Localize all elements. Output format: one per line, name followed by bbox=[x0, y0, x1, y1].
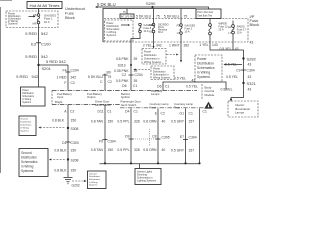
ground G202 bbox=[64, 178, 73, 184]
svg-text:157: 157 bbox=[189, 120, 195, 124]
stub to dimming box bbox=[139, 164, 141, 169]
connector C303 bbox=[66, 141, 71, 143]
svg-text:Power: Power bbox=[197, 57, 207, 61]
svg-text:Hot In Run And: Hot In Run And bbox=[197, 11, 213, 14]
w158 courtesy front bbox=[157, 109, 159, 164]
svg-text:S208: S208 bbox=[71, 159, 79, 163]
svg-text:0.8 PNK: 0.8 PNK bbox=[116, 57, 129, 61]
svg-text:D11: D11 bbox=[98, 109, 104, 113]
svg-text:Ground: Ground bbox=[21, 151, 32, 155]
svg-text:G1: G1 bbox=[179, 112, 184, 116]
svg-text:0.8 BLK: 0.8 BLK bbox=[54, 148, 67, 152]
svg-text:C1: C1 bbox=[203, 110, 207, 114]
svg-text:Systems: Systems bbox=[197, 75, 210, 79]
wire 1 YEL 143 (from WIPER fuse) bbox=[210, 35, 244, 50]
Body Control Module label bbox=[205, 86, 215, 97]
svg-text:0.5 YEL: 0.5 YEL bbox=[226, 75, 238, 79]
svg-text:Jamb Switch: Jamb Switch bbox=[121, 103, 137, 107]
fuse a GAUGES (x140) bbox=[139, 23, 155, 33]
wire 5 RED 542 from header bbox=[38, 9, 40, 66]
svg-text:5 RED: 5 RED bbox=[46, 59, 58, 64]
scan border top edge bbox=[0, 0, 12, 2]
svg-text:S201: S201 bbox=[42, 66, 52, 71]
svg-text:Distribution: Distribution bbox=[21, 156, 37, 160]
note box right: power distribution bbox=[195, 55, 222, 82]
svg-text:39: 39 bbox=[134, 57, 138, 61]
svg-text:C1: C1 bbox=[165, 84, 169, 88]
svg-text:43: 43 bbox=[250, 41, 254, 45]
svg-text:0.8 ORN: 0.8 ORN bbox=[143, 148, 157, 152]
svg-text:5 DK BLU: 5 DK BLU bbox=[164, 15, 180, 19]
svg-text:Rear: Rear bbox=[174, 106, 180, 110]
svg-text:Schematics: Schematics bbox=[89, 178, 101, 181]
ground dist note box G bbox=[88, 171, 107, 189]
ground dist note box2 bbox=[19, 116, 36, 136]
svg-text:in Wiring: in Wiring bbox=[22, 98, 32, 101]
svg-text:F: F bbox=[64, 81, 66, 85]
svg-text:342: 342 bbox=[71, 76, 77, 80]
svg-text:C2: C2 bbox=[122, 73, 126, 77]
svg-text:0.5 PPL: 0.5 PPL bbox=[117, 148, 129, 152]
svg-text:Front: Front bbox=[150, 106, 157, 110]
svg-text:C304: C304 bbox=[247, 69, 255, 73]
svg-text:D6: D6 bbox=[122, 84, 126, 88]
svg-text:S282: S282 bbox=[247, 56, 257, 61]
svg-text:2 YEL: 2 YEL bbox=[143, 43, 152, 47]
svg-text:C204: C204 bbox=[135, 73, 143, 77]
svg-text:Systems: Systems bbox=[20, 130, 29, 133]
dashed arrow to box G bbox=[72, 180, 85, 182]
fuse c (x181) bbox=[177, 24, 196, 35]
svg-text:75: 75 bbox=[156, 15, 160, 19]
svg-text:D6: D6 bbox=[157, 84, 161, 88]
svg-text:150: 150 bbox=[71, 148, 77, 152]
svg-text:Jamb Switch: Jamb Switch bbox=[95, 103, 111, 107]
band labels bbox=[55, 89, 163, 104]
connector C100 bbox=[36, 42, 41, 44]
svg-text:D4: D4 bbox=[125, 109, 129, 113]
svg-text:AC: AC bbox=[149, 24, 153, 27]
svg-text:Module: Module bbox=[205, 93, 215, 97]
svg-text:43: 43 bbox=[248, 75, 252, 79]
svg-text:43: 43 bbox=[248, 88, 252, 92]
internal bus box bbox=[120, 14, 134, 18]
fuse b DIC/RDO (x153.5) bbox=[149, 23, 169, 34]
svg-text:Schematics: Schematics bbox=[21, 160, 38, 164]
svg-text:Systems: Systems bbox=[21, 169, 34, 173]
ESD triangle bbox=[204, 102, 212, 109]
svg-text:S290: S290 bbox=[146, 1, 156, 6]
svg-text:5 RED: 5 RED bbox=[25, 54, 37, 59]
svg-text:25 A: 25 A bbox=[219, 29, 224, 32]
svg-text:157: 157 bbox=[189, 149, 195, 153]
svg-text:0.5 YEL: 0.5 YEL bbox=[221, 88, 233, 92]
svg-text:Wiring Systems: Wiring Systems bbox=[153, 77, 171, 80]
svg-text:0.5 YEL: 0.5 YEL bbox=[186, 84, 198, 88]
svg-text:C1: C1 bbox=[134, 109, 138, 113]
ground dist note box3 bbox=[19, 149, 48, 177]
svg-text:Block: Block bbox=[65, 15, 75, 20]
svg-text:5 RED: 5 RED bbox=[25, 31, 37, 36]
svg-text:0.5 PPL: 0.5 PPL bbox=[117, 120, 129, 124]
svg-text:40: 40 bbox=[162, 148, 166, 152]
svg-text:1 YEL: 1 YEL bbox=[199, 43, 208, 47]
svg-text:E3: E3 bbox=[31, 42, 37, 47]
svg-text:392: 392 bbox=[184, 43, 190, 47]
svg-text:C305: C305 bbox=[162, 136, 170, 140]
header box Hot At All Times bbox=[27, 2, 62, 9]
connector C304 right bbox=[241, 69, 246, 71]
svg-text:5 RED: 5 RED bbox=[16, 74, 28, 79]
svg-text:D9: D9 bbox=[125, 134, 129, 138]
interior lights dimming box bbox=[135, 169, 161, 185]
svg-text:342: 342 bbox=[156, 43, 162, 47]
svg-text:C8: C8 bbox=[152, 134, 156, 138]
svg-text:Systems: Systems bbox=[89, 184, 98, 187]
svg-text:S321: S321 bbox=[247, 81, 257, 86]
svg-text:328: 328 bbox=[134, 120, 140, 124]
svg-text:G202: G202 bbox=[72, 183, 80, 187]
scan border left edge bbox=[0, 7, 1, 173]
wire branch right bbox=[39, 64, 69, 66]
svg-text:C1: C1 bbox=[107, 109, 111, 113]
Hot box right bbox=[196, 9, 221, 19]
svg-text:Block: Block bbox=[250, 22, 260, 27]
svg-text:in Wiring: in Wiring bbox=[89, 181, 98, 184]
svg-text:43: 43 bbox=[248, 63, 252, 67]
svg-text:143: 143 bbox=[212, 43, 218, 47]
svg-text:S313: S313 bbox=[118, 64, 126, 68]
svg-text:Distribution: Distribution bbox=[22, 92, 34, 95]
svg-text:Distribution: Distribution bbox=[89, 175, 101, 178]
svg-text:Input: Input bbox=[57, 95, 63, 99]
splice S290 bbox=[151, 6, 153, 8]
svg-text:Lighting Systems: Lighting Systems bbox=[137, 179, 157, 182]
svg-text:0.8 BLK: 0.8 BLK bbox=[52, 119, 65, 123]
svg-text:15 A: 15 A bbox=[237, 32, 242, 35]
fuse WIPER (x211.5) bbox=[209, 23, 229, 35]
svg-text:Systems: Systems bbox=[22, 101, 32, 104]
fuse GAUGES underhood bbox=[33, 13, 57, 25]
w199.5 end bbox=[199, 109, 201, 164]
svg-text:C2: C2 bbox=[161, 111, 165, 115]
svg-text:Ignition: Ignition bbox=[121, 95, 130, 99]
wire S201 down to power dist box bbox=[38, 65, 40, 87]
arrow inner note bbox=[121, 24, 129, 26]
svg-text:Schematics: Schematics bbox=[22, 95, 35, 98]
svg-text:328: 328 bbox=[134, 148, 140, 152]
svg-text:M6: M6 bbox=[33, 22, 37, 26]
svg-text:E7: E7 bbox=[180, 135, 184, 139]
svg-text:D1: D1 bbox=[62, 141, 66, 145]
svg-text:Distribution: Distribution bbox=[197, 62, 214, 66]
svg-text:0.8 ORN: 0.8 ORN bbox=[143, 120, 157, 124]
svg-text:Schematics: Schematics bbox=[20, 124, 32, 127]
svg-text:B9: B9 bbox=[107, 71, 111, 75]
svg-text:C2: C2 bbox=[108, 80, 112, 84]
svg-text:10 A: 10 A bbox=[44, 20, 50, 24]
wire 0.8 PNK 39 (w131) bbox=[130, 42, 132, 91]
svg-text:C2: C2 bbox=[70, 110, 74, 114]
I/P fuse block outline bbox=[103, 9, 196, 43]
svg-text:0.5 YEL: 0.5 YEL bbox=[174, 77, 186, 81]
svg-text:Lamps: Lamps bbox=[235, 111, 245, 115]
svg-text:40: 40 bbox=[162, 120, 166, 124]
right column wire bbox=[231, 50, 244, 102]
svg-text:Wiring Systems: Wiring Systems bbox=[144, 61, 162, 64]
svg-text:75: 75 bbox=[108, 75, 112, 79]
svg-text:F4: F4 bbox=[63, 68, 67, 72]
svg-text:C1: C1 bbox=[133, 84, 137, 88]
svg-text:Ground: Ground bbox=[89, 172, 97, 175]
connector C204 F4 bbox=[66, 71, 71, 73]
wire B9 (w105 upper) bbox=[104, 74, 106, 91]
svg-text:0.5 GRY: 0.5 GRY bbox=[171, 149, 185, 153]
svg-text:542: 542 bbox=[41, 31, 48, 36]
svg-text:0.5 PNK: 0.5 PNK bbox=[116, 79, 129, 83]
svg-text:0.8 TAN: 0.8 TAN bbox=[91, 120, 104, 124]
svg-text:in Wiring: in Wiring bbox=[21, 165, 34, 169]
note box mid2 bbox=[151, 66, 174, 80]
svg-text:150: 150 bbox=[71, 119, 77, 123]
wire into fuse b bbox=[153, 9, 155, 24]
svg-text:C9: C9 bbox=[236, 69, 240, 73]
svg-text:Lamps: Lamps bbox=[151, 92, 160, 96]
svg-text:150: 150 bbox=[108, 148, 114, 152]
note: power distribution schematics bbox=[8, 13, 22, 26]
wire RADIO fuse down bbox=[232, 34, 234, 50]
svg-text:39: 39 bbox=[134, 79, 138, 83]
inner note dashed box bbox=[105, 20, 134, 41]
svg-text:43: 43 bbox=[192, 79, 196, 83]
splice S321 bbox=[242, 82, 244, 84]
arrow to note box right bbox=[225, 64, 242, 66]
w185.5 courtesy rear bbox=[185, 109, 187, 164]
svg-text:150: 150 bbox=[108, 120, 114, 124]
svg-text:75: 75 bbox=[184, 15, 188, 19]
svg-text:Ground: Ground bbox=[20, 118, 28, 121]
svg-text:542: 542 bbox=[59, 59, 66, 64]
svg-text:Systems: Systems bbox=[8, 23, 18, 26]
label Underhood Fuse Block bbox=[65, 6, 85, 20]
note box mid1 bbox=[142, 49, 166, 65]
svg-text:Distribution: Distribution bbox=[20, 121, 32, 124]
svg-text:S308: S308 bbox=[71, 127, 79, 131]
power dist note box left bbox=[21, 87, 46, 106]
svg-text:in Wiring: in Wiring bbox=[197, 71, 210, 75]
wire 2 YEL 342 (w153.5) bbox=[153, 33, 155, 47]
main bus dash-dot Y1 bbox=[52, 90, 197, 92]
svg-text:Systems: Systems bbox=[107, 34, 117, 37]
w105 lower bbox=[104, 105, 106, 164]
svg-text:5 DK BLU: 5 DK BLU bbox=[88, 75, 104, 79]
dashed box lamps right bbox=[228, 101, 258, 117]
svg-text:43: 43 bbox=[235, 47, 239, 51]
svg-text:INT LPS FB: INT LPS FB bbox=[121, 17, 134, 19]
underhood fuse block dashed box bbox=[6, 11, 58, 28]
wire w68 down bbox=[67, 65, 69, 91]
svg-text:0.8 TAN: 0.8 TAN bbox=[91, 148, 104, 152]
svg-text:1 RED: 1 RED bbox=[57, 76, 68, 80]
arrow note to fuse bbox=[29, 16, 36, 18]
svg-text:Output: Output bbox=[87, 95, 96, 99]
svg-text:0.5 GRY: 0.5 GRY bbox=[171, 120, 185, 124]
w131 lower bbox=[130, 109, 132, 164]
svg-text:0.5 YEL: 0.5 YEL bbox=[219, 47, 231, 51]
svg-text:C204: C204 bbox=[71, 68, 79, 72]
svg-text:C304: C304 bbox=[108, 139, 116, 143]
wire 1 WHT 392 (w181) bbox=[180, 34, 182, 60]
svg-text:Bright: Bright bbox=[55, 100, 63, 104]
fuse RADIO (x233) bbox=[228, 25, 247, 36]
w68 lower to ground bbox=[67, 105, 69, 178]
svg-text:C100: C100 bbox=[41, 42, 51, 47]
svg-text:in Wiring: in Wiring bbox=[20, 127, 29, 130]
splice S282 bbox=[242, 57, 244, 59]
svg-text:1 WHT: 1 WHT bbox=[169, 43, 180, 47]
svg-text:150: 150 bbox=[71, 169, 77, 173]
svg-text:30 A: 30 A bbox=[158, 31, 163, 34]
svg-text:C303: C303 bbox=[71, 141, 79, 145]
svg-text:H6: H6 bbox=[33, 13, 37, 17]
svg-text:Power: Power bbox=[22, 89, 29, 92]
splice S308 bbox=[67, 127, 69, 129]
top bus 5 DK BLU bbox=[97, 7, 209, 9]
wire to BCM (y82 horizontal) bbox=[163, 82, 226, 91]
svg-text:F9: F9 bbox=[99, 139, 103, 143]
svg-text:C1: C1 bbox=[189, 112, 193, 116]
svg-text:10 A: 10 A bbox=[185, 31, 190, 34]
svg-text:5 DK BLU: 5 DK BLU bbox=[97, 2, 116, 7]
svg-text:Schematics: Schematics bbox=[197, 66, 215, 70]
component bottom edges bbox=[52, 104, 120, 106]
splice S201 bbox=[37, 64, 39, 66]
component names bbox=[95, 99, 193, 109]
svg-text:0.8 BLK: 0.8 BLK bbox=[54, 169, 67, 173]
svg-text:C304: C304 bbox=[189, 136, 197, 140]
svg-text:C2: C2 bbox=[71, 81, 75, 85]
svg-text:542: 542 bbox=[32, 74, 39, 79]
splice S208 bbox=[67, 158, 69, 160]
svg-text:5 DK BLU: 5 DK BLU bbox=[136, 15, 152, 19]
svg-text:Start Bulb Test: Start Bulb Test bbox=[197, 15, 212, 18]
svg-text:Hot At All Times: Hot At All Times bbox=[30, 4, 61, 8]
